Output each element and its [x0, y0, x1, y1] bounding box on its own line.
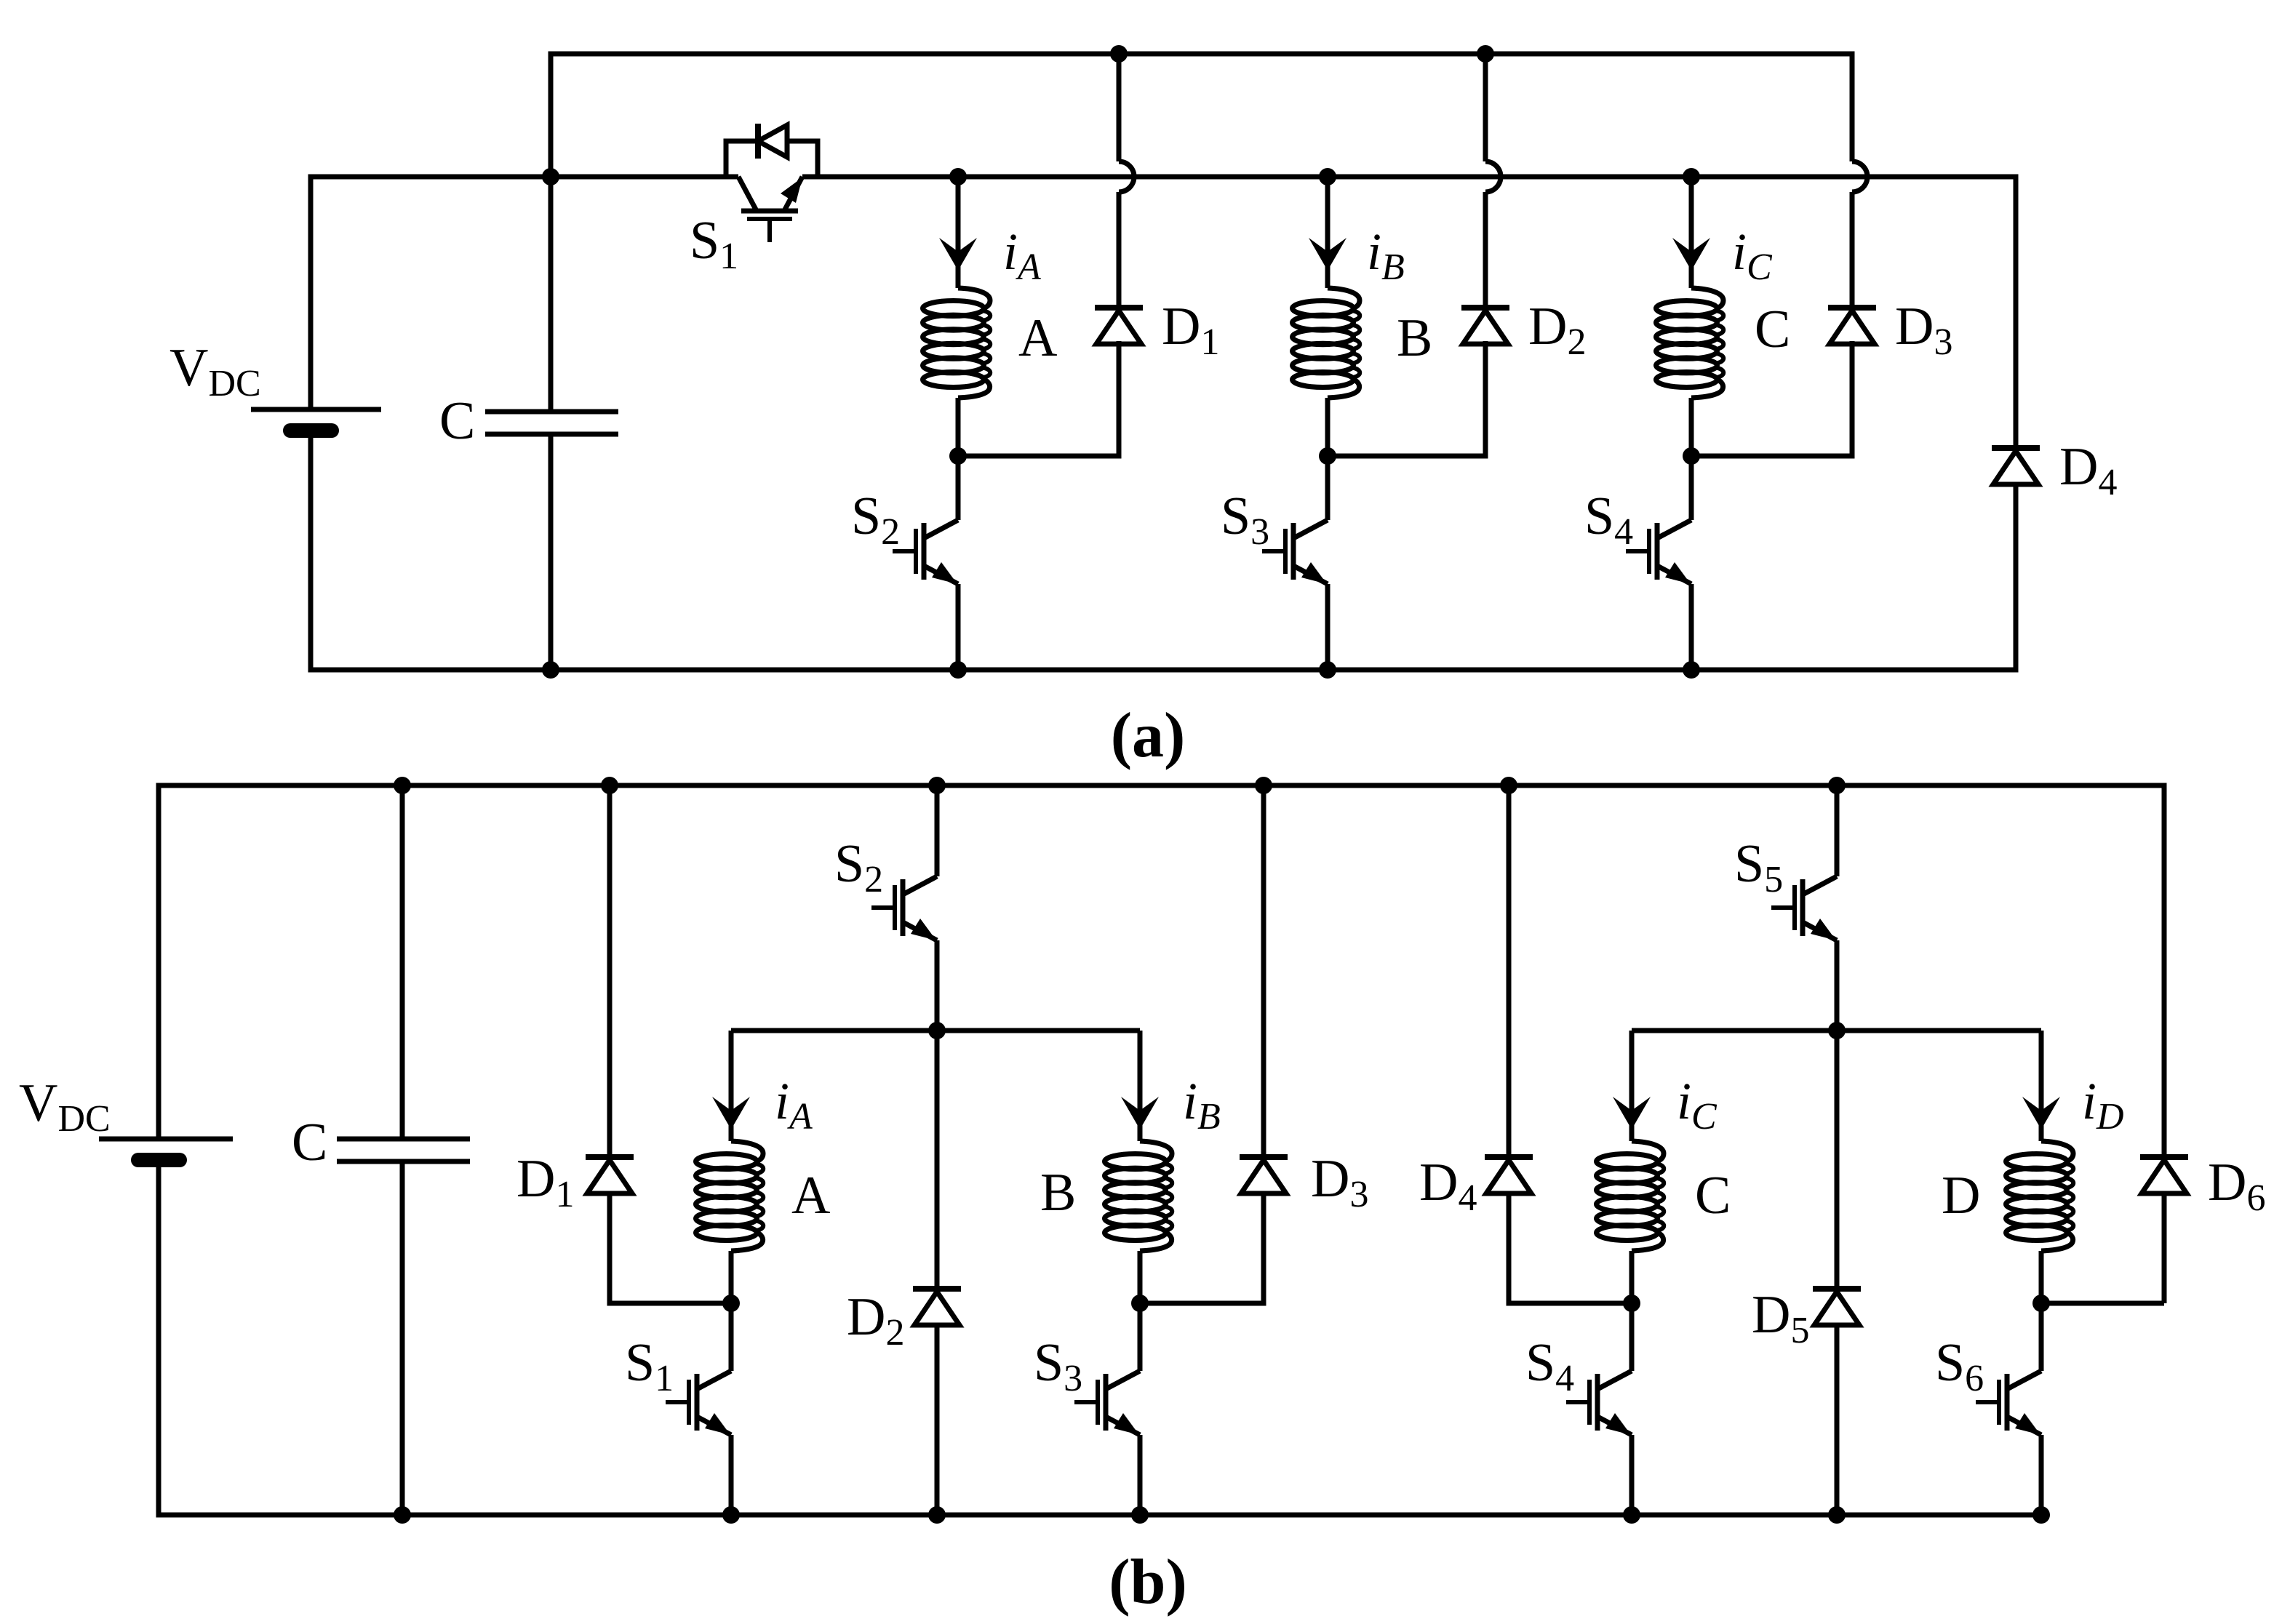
wire: S5 collector from top rail (b): [1835, 785, 1840, 876]
svg-text:D2: D2: [1528, 297, 1586, 363]
node: D1 cathode on top rail (a): [1110, 45, 1128, 63]
wire: bus between phase A and phase B tops (b): [731, 1028, 1140, 1033]
node: S4 emitter on bottom rail (a): [1683, 661, 1700, 679]
node: S5 emitter on C-D bus (b): [1828, 1022, 1846, 1039]
wire: phase B stem (b): [1138, 1031, 1143, 1141]
wire: phase C winding to S4 collector (b): [1629, 1251, 1635, 1371]
svg-text:C: C: [1755, 300, 1790, 359]
IGBT S2 (b): [871, 876, 937, 940]
capacitor C (b): [337, 1139, 470, 1161]
current arrow iC (b): [1613, 1097, 1651, 1129]
svg-text:B: B: [1040, 1163, 1076, 1223]
node C: winding-diode-switch junction (b): [1623, 1295, 1640, 1312]
wire: D4 anode to node C (b): [1509, 1193, 1632, 1303]
wire hop: D2 riser over positive rail (a): [1485, 161, 1501, 192]
anti-parallel diode of S1 (a): [726, 124, 818, 177]
wire: phase C stem (b): [1629, 1031, 1635, 1141]
inductor phase C winding (b): [1597, 1141, 1664, 1251]
svg-text:S2: S2: [851, 487, 900, 553]
node: phase A on positive rail (a): [949, 168, 967, 185]
node: capacitor on positive rail (a): [542, 168, 559, 185]
node D: winding-diode-switch junction (b): [2032, 1295, 2050, 1312]
node: S3 emitter on bottom rail (a): [1319, 661, 1336, 679]
diode D5 (b): [1813, 1289, 1861, 1325]
capacitor C (a): [485, 412, 618, 434]
wire: D4 cathode riser (b): [1507, 785, 1512, 1157]
diode D4 (a): [1992, 448, 2040, 484]
IGBT S5 (b): [1771, 876, 1837, 940]
wire: S2 collector from top rail (b): [935, 785, 940, 876]
svg-text:(b): (b): [1109, 1547, 1187, 1617]
svg-text:iC: iC: [1677, 1072, 1717, 1137]
wire: S4 emitter to bottom rail (a): [1689, 584, 1694, 670]
diode D1 (b): [586, 1157, 634, 1193]
node: capacitor on bottom rail (b): [394, 1506, 411, 1524]
current arrow iC (a): [1672, 238, 1710, 271]
wire: S4 emitter to bottom rail (b): [1629, 1435, 1635, 1515]
wire: D3 cathode riser (b): [1261, 785, 1266, 1157]
wire: phase A stem (b): [729, 1031, 734, 1141]
svg-text:(a): (a): [1111, 700, 1186, 771]
current arrow iB (a): [1309, 238, 1347, 271]
svg-text:D1: D1: [1162, 297, 1219, 363]
svg-text:A: A: [1018, 308, 1057, 368]
svg-text:C: C: [292, 1113, 327, 1172]
diode D4 (b): [1485, 1157, 1533, 1193]
node C: winding-diode-switch junction (a): [1683, 447, 1700, 465]
wire: S6 emitter to bottom rail (b): [2039, 1435, 2044, 1515]
wire: D1 riser lower segment (a): [1117, 192, 1122, 308]
node A: winding-diode-switch junction (b): [722, 1295, 740, 1312]
node: capacitor on top rail (b): [394, 777, 411, 794]
svg-text:iD: iD: [2082, 1072, 2124, 1137]
node: D5 anode on bottom rail (b): [1828, 1506, 1846, 1524]
wire: S5 emitter through bus to D5 cathode (b): [1835, 940, 1840, 1289]
node: phase C on positive rail (a): [1683, 168, 1700, 185]
diode D2 (a): [1461, 308, 1509, 344]
svg-text:C: C: [1695, 1166, 1731, 1225]
wire: D1 anode down to phase A node (a): [958, 341, 1119, 456]
wire: phase B stem from positive rail (a): [1325, 177, 1330, 288]
node: S5 on top rail (b): [1828, 777, 1846, 794]
wire: battery positive lead, top rail (b), D6 cathode riser: [159, 785, 2164, 1157]
node: D2 cathode on top rail (a): [1477, 45, 1494, 63]
node: D3 on top rail (b): [1255, 777, 1272, 794]
IGBT S3 (a): [1262, 520, 1328, 584]
svg-text:S3: S3: [1034, 1333, 1082, 1399]
wire: capacitor bottom lead (a): [548, 434, 554, 670]
IGBT S2 (a): [893, 520, 958, 584]
wire: D1 cathode riser (b): [607, 785, 613, 1157]
wire: D3 anode down to phase C node (a): [1691, 341, 1852, 456]
IGBT S4 (a): [1626, 520, 1691, 584]
wire: negative bottom rail (a) with D4 anode riser: [311, 431, 2016, 670]
current arrow iD (b): [2022, 1097, 2060, 1129]
diode D6 (b): [2140, 1157, 2188, 1193]
node: S2 emitter on bottom rail (a): [949, 661, 967, 679]
wire: D2 anode down to phase B node (a): [1328, 341, 1485, 456]
svg-text:D4: D4: [2059, 437, 2117, 503]
svg-text:iB: iB: [1183, 1072, 1221, 1137]
wire: D1 riser upper segment (a): [1117, 54, 1122, 161]
inductor phase B winding (a): [1293, 288, 1360, 398]
current arrow iA (b): [712, 1097, 750, 1129]
node: D4 on top rail (b): [1500, 777, 1517, 794]
wire: capacitor top lead (a): [548, 177, 554, 412]
wire: S2 emitter through bus to D2 cathode (b): [935, 940, 940, 1289]
svg-text:S1: S1: [625, 1333, 674, 1399]
node: S1 emitter on bottom rail (b): [722, 1506, 740, 1524]
inductor phase A winding (a): [923, 288, 991, 398]
inductor phase B winding (b): [1105, 1141, 1173, 1251]
wire: phase A stem from positive rail (a): [956, 177, 961, 288]
wire: phase B winding to S3 collector (b): [1138, 1251, 1143, 1371]
svg-text:S5: S5: [1734, 834, 1783, 900]
wire: D6 anode segment (b): [2162, 1193, 2167, 1303]
svg-text:D: D: [1942, 1166, 1980, 1225]
wire hop: D1 riser over positive rail (a): [1119, 161, 1134, 192]
IGBT S4 (b): [1566, 1371, 1632, 1435]
inductor phase D winding (b): [2006, 1141, 2074, 1251]
wire: phase A winding to S collector (a): [956, 398, 961, 520]
svg-text:S2: S2: [834, 834, 883, 900]
svg-text:D5: D5: [1752, 1285, 1809, 1351]
node: capacitor on bottom rail (a): [542, 661, 559, 679]
svg-text:D3: D3: [1311, 1149, 1368, 1215]
svg-text:VDC: VDC: [169, 338, 261, 404]
svg-text:D1: D1: [516, 1149, 574, 1215]
wire: battery positive lead and rail to S1 collector (a): [311, 177, 738, 409]
wire: phase D stem (b): [2039, 1031, 2044, 1141]
wire: phase A winding to S1 collector (b): [729, 1251, 734, 1371]
wire: phase C stem from positive rail (a): [1689, 177, 1694, 288]
wire hop: D3 riser over positive rail (a): [1852, 161, 1867, 192]
node: D1 on top rail (b): [601, 777, 618, 794]
wire: D2 riser lower segment (a): [1483, 192, 1488, 308]
node: D2 anode on bottom rail (b): [928, 1506, 946, 1524]
svg-text:iB: iB: [1367, 223, 1405, 288]
svg-text:S6: S6: [1935, 1333, 1984, 1399]
svg-text:A: A: [791, 1166, 830, 1225]
wire: phase B winding to S collector (a): [1325, 398, 1330, 520]
IGBT S6 (b): [1976, 1371, 2041, 1435]
wire: S3 emitter to bottom rail (b): [1138, 1435, 1143, 1515]
wire: D5 anode to bottom rail (b): [1835, 1325, 1840, 1515]
wire: S2 emitter to bottom rail (a): [956, 584, 961, 670]
node B: winding-diode-switch junction (a): [1319, 447, 1336, 465]
node: S4 emitter on bottom rail (b): [1623, 1506, 1640, 1524]
inductor phase C winding (a): [1656, 288, 1724, 398]
battery VDC (b): [99, 1139, 233, 1160]
svg-text:S4: S4: [1525, 1333, 1574, 1399]
node: phase B on positive rail (a): [1319, 168, 1336, 185]
battery VDC (a): [251, 409, 381, 431]
wire: battery negative lead and bottom rail (b): [159, 1158, 2041, 1515]
wire: node D to D6 anode (b): [2041, 1301, 2164, 1306]
svg-text:iC: iC: [1732, 223, 1773, 288]
diode D3 (a): [1828, 308, 1876, 344]
wire: capacitor top lead (b): [400, 785, 405, 1139]
svg-text:iA: iA: [775, 1072, 813, 1137]
svg-text:D4: D4: [1419, 1153, 1477, 1219]
wire: S1 emitter to bottom rail (b): [729, 1435, 734, 1515]
svg-text:VDC: VDC: [19, 1073, 111, 1140]
svg-text:D3: D3: [1895, 297, 1952, 363]
svg-text:C: C: [439, 391, 475, 451]
svg-text:S3: S3: [1221, 487, 1269, 553]
wire: capacitor bottom lead (b): [400, 1161, 405, 1515]
node: S6 emitter on bottom rail (b): [2032, 1506, 2050, 1524]
svg-text:iA: iA: [1003, 223, 1041, 288]
wire: D3 riser lower segment (a): [1850, 192, 1855, 308]
wire: S3 emitter to bottom rail (a): [1325, 584, 1330, 670]
svg-text:B: B: [1397, 308, 1432, 368]
wire: D2 anode to bottom rail (b): [935, 1325, 940, 1515]
node B: winding-diode-switch junction (b): [1131, 1295, 1149, 1312]
current arrow iB (b): [1121, 1097, 1159, 1129]
node: S3 emitter on bottom rail (b): [1131, 1506, 1149, 1524]
wire: D1 anode to node A (b): [610, 1193, 731, 1303]
diode D3 (b): [1240, 1157, 1288, 1193]
svg-text:S1: S1: [690, 211, 738, 277]
wire: positive rail from S1 emitter to D4 cathode riser (a): [802, 177, 2016, 448]
IGBT S1 (a), series switch in positive rail: [738, 177, 802, 242]
wire: top rail (a) with capacitor riser and D3 riser: [551, 54, 1852, 177]
node: S2 on top rail (b): [928, 777, 946, 794]
wire: D3 anode to node B (b): [1140, 1193, 1264, 1303]
svg-text:D2: D2: [847, 1287, 904, 1353]
node: S2 emitter on A-B bus (b): [928, 1022, 946, 1039]
wire: D2 riser upper segment (a): [1483, 54, 1488, 161]
wire: phase C winding to S collector (a): [1689, 398, 1694, 520]
IGBT S3 (b): [1074, 1371, 1140, 1435]
wire: bus between phase C and phase D tops (b): [1632, 1028, 2041, 1033]
svg-text:S4: S4: [1584, 487, 1633, 553]
svg-text:D6: D6: [2208, 1153, 2265, 1219]
diode D1 (a): [1095, 308, 1143, 344]
current arrow iA (a): [939, 238, 977, 271]
IGBT S1 (b): [666, 1371, 731, 1435]
wire: phase D winding to S6 collector (b): [2039, 1251, 2044, 1371]
inductor phase A winding (b): [696, 1141, 764, 1251]
diode D2 (b): [913, 1289, 961, 1325]
node A: winding-diode-switch junction (a): [949, 447, 967, 465]
